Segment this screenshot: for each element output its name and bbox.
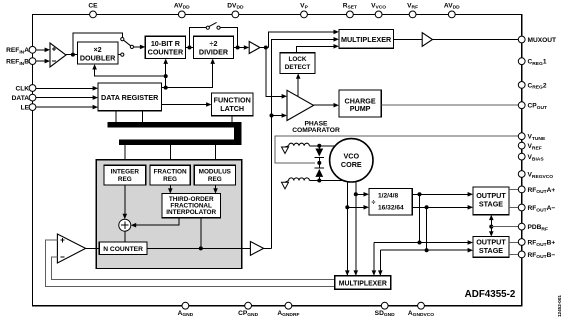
inductor L1 [289,143,310,146]
phase comparator U5 [287,90,340,134]
svg-text:INTERPOLATOR: INTERPOLATOR [166,209,216,216]
svg-text:DOUBLER: DOUBLER [80,53,116,62]
inductor L2 [289,178,310,181]
svg-text:16/32/64: 16/32/64 [378,204,404,211]
pin REFINA [6,46,36,55]
pin RFOUTA- [518,204,555,213]
wire feedback to multiplexer input 2 [272,37,339,248]
svg-text:MULTIPLEXER: MULTIPLEXER [339,281,387,288]
node H [317,179,321,183]
svg-text:REG: REG [208,176,222,183]
N divider input amp U7 [57,234,85,263]
pin VREGVCO [518,171,553,180]
pin CPOUT [518,102,547,111]
wire bus to modulus reg [215,145,217,165]
bus bars [108,122,242,145]
pin AVDD top2 [444,2,460,17]
wire feedback - from mux [52,257,335,280]
wire feedback + from mux [45,240,335,287]
wire output stage A to RFOUTA+ [509,188,519,190]
svg-text:FRACTION: FRACTION [154,169,187,176]
svg-text:CE: CE [88,2,98,9]
wire RF divider output 1, node I [412,192,473,197]
pin CPGND [238,302,259,318]
wire interpolator to summer [131,218,179,228]
wire L1 to varactor node, node G [309,144,335,148]
pin CE [88,2,98,17]
output stage B [473,237,509,258]
wire data register to bus 1 [115,111,117,122]
wire function latch to bus [231,116,233,122]
pin RFOUTA+ [518,186,555,195]
wire CLK to data register [36,86,98,91]
svg-text:DATA: DATA [12,95,30,102]
wire branch left to doubler bottom [92,64,165,76]
wire output stage B to RFOUTB- [509,253,519,255]
pin RSET [343,2,357,17]
wire VTUNE [275,136,519,163]
wire branch down to output stage B line 2, node L [425,207,429,252]
svg-text:MUXOUT: MUXOUT [528,37,557,44]
multiplexer top U3 [339,29,394,48]
pin AGNDVCO [408,302,434,318]
N counter output buffer U6 [250,242,263,256]
wire R counter output, node A [186,46,194,50]
wire divider output, node B [234,45,250,50]
svg-text:PUMP: PUMP [350,104,371,113]
doubler D1 [77,42,118,64]
svg-text:LE: LE [21,105,30,112]
wire branch to bottom multiplexer input 4 [378,250,383,276]
svg-text:STAGE: STAGE [479,246,503,255]
data register [98,83,162,111]
pin DATA [12,94,36,102]
wire DATA to data register [36,95,98,100]
wire summer to N counter [124,231,126,242]
wire buffer to MUXOUT [433,39,520,41]
wire buffer to node C [260,46,269,50]
svg-text:REG: REG [118,176,132,183]
input reference buffer U1 [50,43,66,67]
RF divider [369,189,412,215]
pin VVCO [371,2,386,17]
svg-text:N COUNTER: N COUNTER [103,246,143,253]
svg-text:12452-001: 12452-001 [557,295,562,317]
svg-text:ADF4355-2: ADF4355-2 [465,289,516,300]
svg-text:STAGE: STAGE [479,200,503,209]
svg-text:CLK: CLK [15,85,29,92]
wire PDB between output stages [489,215,494,237]
wire PDBRF [491,226,519,228]
svg-text:INTEGER: INTEGER [111,169,140,176]
bottom multiplexer U8 [335,276,391,289]
wire buffer output up [264,247,272,249]
wire output stage A to RFOUTA- [509,207,519,209]
pin AGNDRF [277,302,299,318]
varactor CR2 [315,163,325,181]
wire modulus reg to interpolator [213,185,218,194]
fraction reg [150,165,190,185]
pin PDBRF [518,223,548,232]
wire branch down to output stage B line 1, node K [418,194,422,244]
pin MUXOUT [518,36,556,44]
wire output stage B to RFOUTB+ [509,241,519,243]
N counter [99,242,147,254]
sigma-delta modulator gray block [96,160,242,269]
wire reference down to phase comparator + [266,48,287,99]
svg-text:COUNTER: COUNTER [148,48,184,57]
wire multiplexer to output buffer [393,39,422,41]
wire to output stage B input 2 [380,248,473,253]
function latch [212,93,254,116]
pin SDGND [375,302,396,318]
wire VCO output 1 down [354,182,359,276]
third-order fractional interpolator [162,194,220,218]
wire REFINA to buffer [36,48,50,53]
VCO core [330,139,373,182]
pin CREG1 [518,58,547,67]
doubler bypass wire and switch S1 [73,33,145,56]
divider /2 [193,36,233,58]
pin AGND [178,302,194,318]
integer reg [104,165,146,185]
pin CLK [15,85,35,93]
pin RFOUTB+ [518,239,555,248]
varactor CR1 [315,146,325,163]
pin VP [300,2,308,17]
wire data register to divider bottom [162,59,216,90]
muxout buffer U4 [422,33,432,47]
wire lock detect to multiplexer input 3 [297,44,339,53]
wire integer reg to summer [123,185,128,219]
wire LE to data register [36,105,98,110]
wire branch to bottom multiplexer input 3 [372,243,377,276]
wire phase comparator to charge pump [314,103,339,108]
node VTUNE junction [317,161,321,165]
10-bit R counter [145,36,185,58]
svg-text:MODULUS: MODULUS [199,169,232,176]
pin LE [21,104,36,112]
wire charge pump to CPOUT [381,104,519,106]
svg-text:DETECT: DETECT [285,64,311,71]
wire RF divider output 2, node J [412,205,473,210]
svg-text:REG: REG [163,176,177,183]
charge pump [339,90,381,117]
wire data register to function latch [162,102,212,107]
output stage A [473,187,509,215]
pin AVDD top1 [174,2,190,17]
wire doubler output stub [118,54,121,56]
wire bus to fraction reg [169,145,171,165]
pin VRF [407,2,418,17]
pin VTUNE [518,133,546,142]
ground G2 [282,181,289,189]
svg-text:COMPARATOR: COMPARATOR [292,127,340,134]
wire N counter to buffer, node F [147,246,250,250]
wire feedback to interpolator [200,218,202,249]
pin DVDD [227,2,244,17]
svg-text:DIVIDER: DIVIDER [199,48,229,57]
divider bypass wire and switch S2 [190,22,238,47]
ground G1 [282,146,289,154]
wire data register to bus 2 [142,111,144,122]
wire amp to N counter [86,247,100,249]
wire to output stage B input 1 [374,240,473,245]
wire bus to integer reg [124,145,126,165]
svg-text:÷: ÷ [372,199,376,206]
wire varactor node to VCO [319,180,343,182]
chip border [33,14,522,305]
wire phase comparator to lock detect [296,73,301,96]
wire branch up to R counter bottom, node E [163,59,168,88]
reference buffer U2 [249,42,260,54]
pin CREG2 [518,82,547,91]
svg-text:1/2/4/8: 1/2/4/8 [378,193,398,200]
summer junction [119,219,131,231]
wire VCO to RF divider input 1 [356,192,369,197]
wire feedback to phase comparator -, node D [270,113,288,118]
wire fraction reg to interpolator [168,185,173,194]
modulus reg [194,165,235,185]
pin VBIAS [518,153,544,162]
svg-text:CORE: CORE [341,160,362,169]
svg-text:MULTIPLEXER: MULTIPLEXER [341,35,392,44]
pin VREF [518,142,541,151]
wire VCO output 2 down [345,181,350,276]
svg-text:LOCK: LOCK [288,56,306,63]
pin REFINB [6,58,36,67]
wire reference to multiplexer input 1 [269,30,339,48]
lock detect [280,53,315,74]
pin RFOUTB- [518,251,555,260]
wire VCO to RF divider input 2 [347,205,369,210]
wire L2 to varactor node [309,180,319,182]
svg-text:DATA REGISTER: DATA REGISTER [101,93,159,102]
wire buffer output to doubler, node [66,53,77,57]
wire REFINB to buffer [36,59,50,64]
svg-text:LATCH: LATCH [220,104,244,113]
